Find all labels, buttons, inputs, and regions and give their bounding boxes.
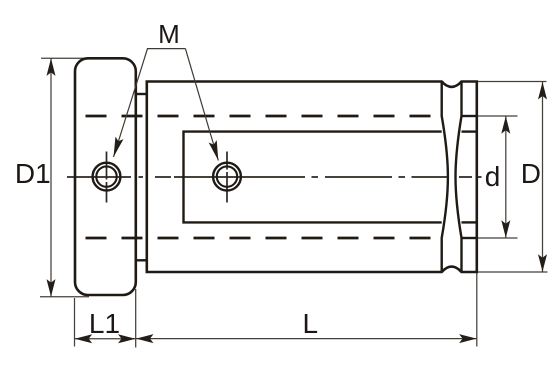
L1 dimension line with arrows	[75, 338, 136, 340]
hidden bore line bottom	[76, 237, 442, 240]
right end bore line top	[462, 115, 477, 117]
relief neck top edge	[136, 93, 147, 95]
groove left boundary	[442, 82, 448, 273]
bore counterbore window	[184, 132, 442, 223]
L dimension line with arrows	[136, 338, 477, 340]
right end counterbore line top	[462, 130, 477, 132]
D top extension line	[478, 81, 547, 83]
M leader to hole 1	[114, 49, 148, 157]
hidden bore line top	[76, 115, 442, 118]
right end bore line bottom	[462, 237, 477, 239]
flange	[75, 58, 136, 295]
screw hole 1 outer circle	[93, 163, 121, 191]
label d	[485, 161, 501, 193]
right end counterbore line bottom	[462, 221, 477, 223]
M leader bar	[147, 48, 185, 50]
D1 top extension line	[41, 57, 89, 59]
D1 dimension line with arrows	[50, 58, 52, 296]
D1 bottom extension line	[40, 296, 89, 298]
d bottom extension line	[478, 237, 518, 239]
D bottom extension line	[478, 271, 548, 273]
relief neck bottom edge	[136, 259, 147, 261]
L right extension line	[476, 272, 478, 347]
screw hole 1 inner circle	[96, 166, 116, 186]
L1 left extension line	[74, 298, 76, 347]
label M	[158, 19, 180, 50]
label L1	[89, 308, 120, 340]
d top extension line	[478, 115, 518, 117]
main horizontal centerline	[67, 176, 482, 178]
L1/L shared extension line	[135, 289, 137, 348]
D dimension line with arrows	[542, 82, 544, 272]
label D	[521, 158, 541, 190]
screw hole 2 inner circle	[217, 166, 237, 186]
screw hole 2 outer circle	[213, 163, 241, 191]
d dimension line with arrows	[505, 116, 507, 238]
hole 2 vertical centerline	[226, 152, 228, 203]
hole 1 vertical centerline	[106, 152, 108, 203]
label D1	[15, 158, 51, 190]
body outline	[147, 82, 477, 273]
groove right boundary	[456, 82, 462, 273]
label L	[303, 308, 319, 340]
M leader to hole 2	[185, 49, 218, 161]
